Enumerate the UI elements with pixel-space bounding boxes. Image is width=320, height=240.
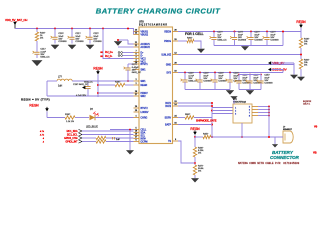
junction bat rail x269	[268, 136, 270, 138]
wire to Q left pin3	[212, 113, 233, 115]
resistor R25?	[203, 133, 211, 138]
inductor L7? label	[58, 77, 63, 79]
junction REGN row2	[97, 92, 99, 94]
resistor R50?	[185, 114, 194, 119]
svg-text:RU_D+: RU_D+	[105, 51, 114, 54]
ground connector	[272, 145, 278, 148]
net label SHIPMODE_GATE	[196, 120, 217, 123]
svg-text:R25?: R25?	[203, 133, 209, 135]
net label DCDC_3V	[268, 68, 288, 72]
pin SW1 (left)	[134, 79, 147, 83]
svg-text:R30?: R30?	[187, 37, 193, 39]
capacitor C19? with polarity arrow	[73, 81, 91, 97]
svg-text:MATING CONN WITH CABLE P/N: 31: MATING CONN WITH CABLE P/N: 3171345233	[238, 161, 300, 165]
junction 3V caps 261	[260, 74, 262, 76]
svg-text:CC0603: CC0603	[58, 41, 67, 43]
svg-text:LED_BLUE: LED_BLUE	[86, 127, 98, 129]
net label right edge VB	[313, 151, 317, 155]
wire bus to C20?	[54, 29, 56, 34]
svg-text:REGN: REGN	[29, 103, 39, 107]
svg-text:SHIPMODE_GATE: SHIPMODE_GATE	[196, 120, 217, 123]
capacitor C2?? at x=234.5	[230, 32, 247, 46]
wire U7 gnd stub	[233, 100, 235, 104]
capacitor C21?	[68, 33, 85, 44]
wire R30 to ground	[194, 41, 201, 49]
svg-text:VDD_5V_BAT_CH: VDD_5V_BAT_CH	[5, 18, 27, 22]
wire D- row	[123, 55, 134, 57]
pin ILIM_HIZ (right)	[162, 53, 178, 57]
junction REGN rail 267	[266, 31, 268, 33]
pin 8 U7? right	[249, 116, 258, 118]
wire VBUS1 stub link	[134, 31, 140, 33]
svg-text:SCL: SCL	[141, 136, 146, 138]
capacitor C17?	[124, 64, 142, 74]
pin SCL (left)	[134, 134, 146, 138]
net label REGN (divider)	[190, 127, 200, 135]
pin BTST2 (left)	[134, 106, 149, 110]
pin VBUS2 (left)	[134, 33, 149, 37]
no-connect circles D+	[118, 52, 122, 54]
ground at x294	[290, 75, 297, 79]
wire CELL row	[110, 129, 134, 131]
svg-text:OCPM: OCPM	[141, 142, 148, 144]
pin SDRV (right)	[165, 116, 178, 120]
ground REGN caps	[241, 47, 248, 51]
svg-text:CELL: CELL	[141, 130, 147, 132]
capacitor C21?	[33, 49, 50, 59]
svg-text:1uH: 1uH	[58, 86, 63, 88]
wire L7 to SW1 pin	[72, 80, 133, 82]
svg-text:V0: V0	[314, 125, 318, 129]
resistor R26?	[193, 147, 204, 157]
wire DCDC_3V	[272, 70, 284, 73]
wire C17 down to SW	[127, 74, 129, 81]
wire 3V caps bottom rail	[239, 89, 261, 91]
svg-text:0402_CC: 0402_CC	[40, 56, 50, 58]
svg-text:L7?: L7?	[58, 77, 63, 79]
svg-text:CBL? 3.: CBL? 3.	[303, 103, 311, 105]
inductor value 1uH	[58, 86, 63, 88]
pin SDA (left)	[134, 131, 146, 135]
pin VIC2 (left)	[134, 57, 147, 61]
svg-text:VIC2: VIC2	[141, 59, 147, 61]
ground below C21	[32, 61, 42, 67]
svg-text:ACDRV1: ACDRV1	[141, 43, 151, 46]
junction REGN rail x283	[282, 31, 284, 33]
pin LODRV (left)	[134, 110, 149, 114]
wire bat rail	[211, 136, 283, 138]
ground SYS caps	[226, 91, 234, 95]
wire D+ row	[123, 52, 134, 54]
wire U7 right y=112.5	[258, 112, 269, 114]
wire divider top	[194, 137, 196, 147]
pin BATP (right)	[165, 123, 178, 127]
wire PROG to R30	[178, 40, 187, 42]
junction 3V caps 250	[249, 74, 251, 76]
svg-text:BQ25703AMRSNR: BQ25703AMRSNR	[139, 24, 168, 27]
wire SDRV	[178, 117, 185, 119]
svg-text:D?: D?	[90, 109, 94, 111]
wire divider bottom	[194, 175, 196, 178]
capacitor SYS bank 215	[211, 73, 228, 90]
svg-text:ACDRV2: ACDRV2	[141, 46, 151, 49]
wire ILIM_HIZ	[178, 54, 301, 56]
svg-text:VBUS1: VBUS1	[141, 32, 149, 34]
svg-text:C19? 0402_CC: C19? 0402_CC	[73, 84, 88, 86]
resistor R28?	[65, 114, 75, 123]
junction SYS 185	[184, 72, 186, 74]
svg-text:RU_D-: RU_D-	[105, 55, 113, 58]
label BATTERY CONNECTOR	[270, 150, 300, 160]
svg-text:0402_CC: 0402_CC	[132, 72, 142, 74]
wire LED to pin	[95, 117, 134, 119]
net label I2C1_SDA value	[40, 131, 45, 133]
junction on VBUS bus x=103	[102, 28, 104, 30]
svg-text:4.7uF 25V: 4.7uF 25V	[76, 95, 87, 97]
ground PROG	[197, 49, 204, 53]
net label GPIO1_INT value	[43, 142, 45, 144]
svg-text:CC0603: CC0603	[238, 39, 247, 41]
wire GND pin	[178, 64, 294, 66]
junction REGN rail 251	[250, 31, 252, 33]
junction BAT column y=110.5	[211, 110, 213, 112]
svg-text:SDA: SDA	[141, 132, 146, 135]
inductor L7?	[47, 79, 72, 81]
wire ACDRV2 row	[118, 46, 134, 48]
pin BTST1 (left)	[134, 62, 149, 66]
net label RU_D-	[105, 55, 113, 58]
net label REGN (right)	[296, 20, 306, 28]
net label GPIO1_INT	[66, 142, 79, 144]
capacitor C2?? at x=251	[247, 32, 264, 46]
pin ACDRV1 (left)	[134, 42, 151, 46]
pin D+ (left)	[134, 51, 145, 55]
net label GPIO1_CHG value	[43, 138, 45, 140]
wire bat rail left	[195, 136, 203, 138]
wire BTST1 to C17	[128, 63, 134, 65]
net label VDD_5V_BAT_CH	[5, 18, 27, 29]
svg-text:SW1: SW1	[141, 70, 147, 72]
pin BAT2 (right)	[165, 104, 178, 108]
pin VBUS1 (left)	[134, 30, 149, 34]
junction on VBUS bus x=55	[54, 28, 56, 30]
capacitor SYS bank 185	[181, 73, 198, 90]
net label GPIO1_CHG	[64, 138, 78, 140]
pin TS (right)	[168, 139, 178, 143]
wire connector pin	[280, 136, 283, 138]
capacitor C22?	[86, 33, 103, 44]
capacitor C24?	[246, 75, 263, 90]
note FOR 1 CELL	[185, 32, 204, 36]
value 0R for RU_D+	[100, 52, 103, 54]
wire BAT vertical	[211, 103, 213, 137]
wire ACDRV1 jog	[128, 40, 134, 44]
ground at ACDRV1	[114, 42, 122, 46]
ground I2C block	[126, 151, 133, 155]
pin HIDRV (left)	[134, 91, 149, 95]
svg-text:4: 4	[43, 142, 45, 144]
wire REGN vertical	[97, 75, 99, 98]
svg-text:REGN: REGN	[141, 85, 148, 87]
wire bus to R10	[36, 29, 38, 33]
title text	[96, 7, 221, 16]
connector J? refdes	[283, 127, 293, 131]
junction REGN rail 234.5	[234, 31, 236, 33]
svg-text:1%: 1%	[40, 38, 43, 40]
wire VDD_3V	[272, 62, 295, 64]
svg-text:CC0603: CC0603	[93, 41, 102, 43]
svg-text:CC0603: CC0603	[254, 39, 263, 41]
svg-text:LODRV: LODRV	[141, 112, 149, 114]
op-amp U70 refdes	[139, 21, 168, 27]
junction SYS 215	[214, 72, 216, 74]
wire vertical to ground x130	[129, 130, 131, 151]
pin CELL (left)	[134, 128, 147, 132]
pin SYS (right)	[166, 71, 178, 75]
pin 7 U7? right	[249, 113, 258, 115]
wire R29 to pin	[125, 84, 134, 86]
wire bus to C22?	[89, 29, 91, 34]
svg-text:1%: 1%	[198, 171, 201, 173]
svg-text:REGN: REGN	[296, 20, 306, 24]
svg-text:4.7k: 4.7k	[40, 131, 45, 133]
junction on VBUS bus x=90	[89, 28, 91, 30]
junction BAT column y=103	[211, 102, 213, 104]
no-connect circles D-	[118, 55, 122, 57]
IC U70 body	[139, 27, 173, 144]
wire GPIO1_CHG to resistor	[82, 137, 96, 139]
wire loop left vertical	[46, 81, 48, 96]
wire row y93	[98, 92, 134, 94]
wire ACDRV1 row	[118, 39, 128, 41]
transistor U7? body	[233, 104, 252, 123]
svg-text:BATTERY CHARGING CIRCUIT: BATTERY CHARGING CIRCUIT	[96, 7, 221, 16]
svg-text:VBUS2: VBUS2	[141, 35, 149, 37]
junction CELL	[129, 129, 131, 131]
junction x269 y=109.5	[268, 109, 270, 111]
pin REGN (left)	[134, 83, 148, 87]
resistor R19?	[299, 38, 310, 48]
svg-text:1%: 1%	[198, 153, 201, 155]
ground below C22?	[86, 45, 94, 49]
svg-text:1%: 1%	[304, 65, 307, 67]
svg-text:TS: TS	[168, 141, 171, 143]
ground below C20?	[51, 45, 59, 49]
svg-text:R50?: R50?	[185, 114, 191, 116]
junction ACDRV1	[117, 39, 119, 41]
wire REGN rail close vertical	[282, 32, 284, 46]
capacitor 1uF on GPIO row	[113, 137, 121, 141]
pin SW2 (left)	[134, 94, 147, 98]
wire U7 source down	[241, 123, 243, 137]
pin CHRG (left)	[134, 116, 148, 120]
resistor pull GPIO1_CHG	[96, 136, 106, 139]
svg-text:REGN = 5V (TYP): REGN = 5V (TYP)	[21, 98, 50, 102]
svg-text:4: 4	[43, 138, 45, 140]
svg-text:D-: D-	[141, 56, 144, 58]
svg-text:4.7k: 4.7k	[40, 135, 45, 137]
wire to Q left pin2	[212, 110, 233, 112]
wire battery vertical	[268, 107, 270, 138]
svg-text:I2C1_SDA: I2C1_SDA	[67, 130, 78, 133]
junction on VBUS bus x=37	[36, 28, 38, 30]
junction BAT column y=124.5	[211, 124, 213, 126]
svg-text:SYS: SYS	[166, 73, 171, 75]
wire bus drop to VIC	[103, 29, 134, 59]
wire BAT2	[178, 105, 212, 107]
wire U7 right y=115.5	[258, 115, 269, 117]
svg-text:BTST2: BTST2	[141, 108, 149, 110]
pin VIC1 (left)	[134, 60, 147, 64]
svg-text:SDRV: SDRV	[165, 118, 172, 120]
svg-text:1uF: 1uF	[116, 139, 120, 141]
wire to Q left pin1	[212, 107, 233, 109]
port arrow GPIO1_INT	[79, 140, 83, 143]
wire to R28	[47, 117, 65, 119]
pin 3 U7? left	[235, 114, 237, 116]
svg-text:CC0603: CC0603	[75, 41, 84, 43]
wire VDD_3V down	[293, 63, 295, 75]
wire R50 to column	[194, 117, 212, 119]
svg-text:SW1: SW1	[141, 81, 147, 83]
svg-text:INT#: INT#	[141, 139, 147, 141]
note mating conn	[238, 161, 300, 165]
svg-text:BAT2: BAT2	[165, 105, 171, 108]
wire REGN to R29	[98, 84, 115, 86]
wire GPIO1_INT to IC	[106, 141, 134, 143]
junction x269 y=112.5	[268, 112, 270, 114]
svg-text:R28?: R28?	[65, 114, 71, 116]
wire SYS caps bottom	[185, 89, 230, 91]
net label REGN (left)	[93, 66, 103, 74]
wire loop bottom	[47, 95, 134, 97]
wire REGN caps bottom rail	[214, 45, 283, 47]
port arrow I2C1_SCL	[79, 133, 83, 136]
wire GPIO1_CHG to IC	[106, 137, 134, 139]
junction SYS 230	[229, 72, 231, 74]
junction x269 y=115.5	[268, 115, 270, 117]
svg-text:ILIM_HIZ: ILIM_HIZ	[162, 55, 172, 57]
junction ILIM divider	[300, 54, 302, 56]
svg-text:BATP: BATP	[165, 124, 171, 127]
svg-text:CC0603: CC0603	[264, 82, 273, 84]
svg-text:FOR 1 CELL: FOR 1 CELL	[185, 32, 204, 36]
wire connector gnd stub	[274, 137, 276, 144]
capacitor SYS bank 200	[196, 73, 213, 90]
capacitor C23?	[235, 75, 252, 90]
pin SW1 (left)	[134, 68, 147, 72]
pin REGN (right)	[164, 30, 178, 34]
pin D- (left)	[134, 54, 144, 58]
wire R28 to LED	[75, 117, 89, 119]
connector J? body	[283, 131, 293, 143]
pin 5 U7? right	[249, 107, 258, 109]
junction SYS 200	[199, 72, 201, 74]
junction on VBUS bus x=128	[127, 28, 129, 30]
resistor R30?	[187, 37, 194, 42]
svg-text:1%: 1%	[304, 44, 307, 46]
port arrow GPIO1_CHG	[79, 136, 83, 139]
wire REGN to bat wire	[194, 135, 196, 137]
wire bus to VBUS pins	[128, 29, 134, 35]
svg-text:I2C1_SCL: I2C1_SCL	[67, 135, 78, 137]
junction BAT column y=106	[211, 105, 213, 107]
wire REGN to R19	[300, 28, 302, 38]
junction x269 y=106.5	[268, 106, 270, 108]
wire BAT1	[178, 102, 212, 104]
svg-text:GPIO1_CHG: GPIO1_CHG	[64, 138, 78, 140]
wire I2C1_SCL to IC	[82, 134, 134, 136]
capacitor C25?	[257, 75, 274, 90]
svg-text:0402_CC: 0402_CC	[217, 39, 227, 41]
svg-text:REGN: REGN	[93, 66, 103, 70]
wire 3V caps top rail	[239, 74, 261, 76]
wire R20 to gnd	[300, 69, 302, 77]
resistor pull GPIO1_INT	[96, 140, 106, 143]
svg-text:U70: U70	[139, 21, 144, 24]
net label I2C1_SCL value	[40, 135, 45, 137]
net label VDD_3V	[268, 61, 285, 65]
svg-text:R29?: R29?	[115, 81, 121, 83]
svg-text:1.1k 1%: 1.1k 1%	[66, 121, 74, 123]
pin INT# (left)	[134, 137, 147, 141]
capacitor C2?? at x=214	[210, 32, 227, 46]
junction on VBUS bus x=72	[71, 28, 73, 30]
net label I2C1_SDA	[67, 130, 78, 133]
junction C17/SW	[127, 80, 129, 82]
value 0R for RU_D-	[100, 56, 103, 58]
net label REGN (LED)	[29, 103, 48, 111]
wire I2C1_SDA to IC	[82, 130, 134, 132]
resistor R10?	[35, 32, 46, 41]
wire U7 right y=106.5	[258, 106, 269, 108]
wire SYS rail	[178, 72, 283, 74]
label 0402_CC row	[84, 82, 93, 84]
wire TS route	[178, 141, 195, 163]
pin BAT1 (right)	[165, 101, 178, 105]
svg-text:BTST1: BTST1	[141, 64, 149, 66]
svg-text:GND: GND	[166, 65, 171, 67]
svg-text:CSD17571Q2: CSD17571Q2	[233, 102, 247, 104]
capacitor SYS bank 230	[226, 73, 243, 90]
ground divider TS	[191, 179, 198, 183]
svg-text:PROG: PROG	[164, 41, 171, 43]
wire R19 to node	[300, 48, 302, 59]
pin ACDRV2 (left)	[134, 45, 151, 49]
pin OCPM (left)	[134, 140, 148, 144]
net label I2C1_SCL	[67, 135, 78, 137]
junction REGN/R29 row	[97, 84, 99, 86]
svg-text:0402_CC: 0402_CC	[84, 82, 93, 84]
wire GPIO1_INT to resistor	[82, 141, 96, 143]
LED D? blue	[86, 109, 98, 129]
wire divider mid	[194, 157, 196, 165]
ground above U7?	[231, 97, 238, 101]
wire U7 right y=109.5	[258, 109, 269, 111]
junction REGN bat	[194, 136, 196, 138]
wire bus to C21?	[71, 29, 73, 34]
svg-text:REGN: REGN	[190, 127, 200, 131]
pin PROG (right)	[164, 39, 178, 43]
net label right edge2	[314, 125, 318, 129]
wire main VBUS bus	[15, 28, 128, 30]
svg-text:HIDRV: HIDRV	[141, 93, 149, 95]
note REGN = 5V (TYP)	[21, 98, 50, 102]
pin 2 U7? left	[235, 111, 237, 113]
svg-text:GPIO1_INT: GPIO1_INT	[66, 142, 79, 144]
svg-text:CHRG: CHRG	[141, 118, 148, 120]
wire REGN drop	[46, 112, 48, 118]
